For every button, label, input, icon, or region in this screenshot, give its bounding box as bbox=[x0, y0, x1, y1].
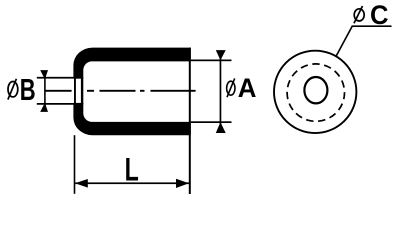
dimension A: bottom extension line bbox=[191, 121, 232, 123]
svg-text:L: L bbox=[125, 151, 139, 188]
stub bottom line bbox=[37, 103, 76, 105]
dimension A: top extension line bbox=[191, 60, 232, 62]
dimension L: left arrow bbox=[75, 179, 88, 188]
stub inner-surface line bbox=[81, 77, 83, 105]
leader line for øC bbox=[336, 26, 392, 57]
end view: inner hole circle bbox=[304, 77, 327, 103]
svg-text:B: B bbox=[20, 72, 36, 106]
centerline dash 3 bbox=[100, 90, 136, 92]
centerline dash 4 bbox=[140, 90, 145, 92]
dimension L: dimension line bbox=[75, 182, 189, 184]
stub top line bbox=[37, 77, 76, 79]
dimension L: left extension line bbox=[74, 135, 76, 194]
svg-text:C: C bbox=[370, 0, 389, 30]
dimension L: right arrow bbox=[176, 179, 189, 188]
cap mouth right edge line + L extension line bbox=[189, 48, 191, 194]
dimension A: top arrow bbox=[216, 50, 226, 60]
label øA diameter symbol bbox=[227, 78, 235, 97]
label øC diameter symbol bbox=[354, 6, 364, 23]
svg-text:A: A bbox=[238, 72, 257, 103]
end view: outer circle bbox=[274, 51, 356, 133]
dimension A: dimension line bbox=[220, 52, 222, 132]
label øB diameter symbol bbox=[8, 79, 18, 100]
centerline dash 2 bbox=[87, 90, 94, 92]
dimension A: bottom arrow bbox=[216, 122, 226, 133]
cap body (side section view, thick outline) bbox=[73, 48, 190, 136]
centerline dash 1 bbox=[45, 90, 72, 92]
stub mouth gap in cap left wall bbox=[73, 79, 85, 103]
dimension B: bottom arrow bbox=[40, 103, 48, 112]
centerline dash 5 bbox=[151, 90, 196, 92]
dimension B: dimension line bbox=[44, 71, 46, 112]
end view: dashed circle bbox=[287, 64, 344, 121]
stub outer-surface line bbox=[74, 77, 76, 105]
dimension B: top arrow bbox=[40, 70, 48, 79]
